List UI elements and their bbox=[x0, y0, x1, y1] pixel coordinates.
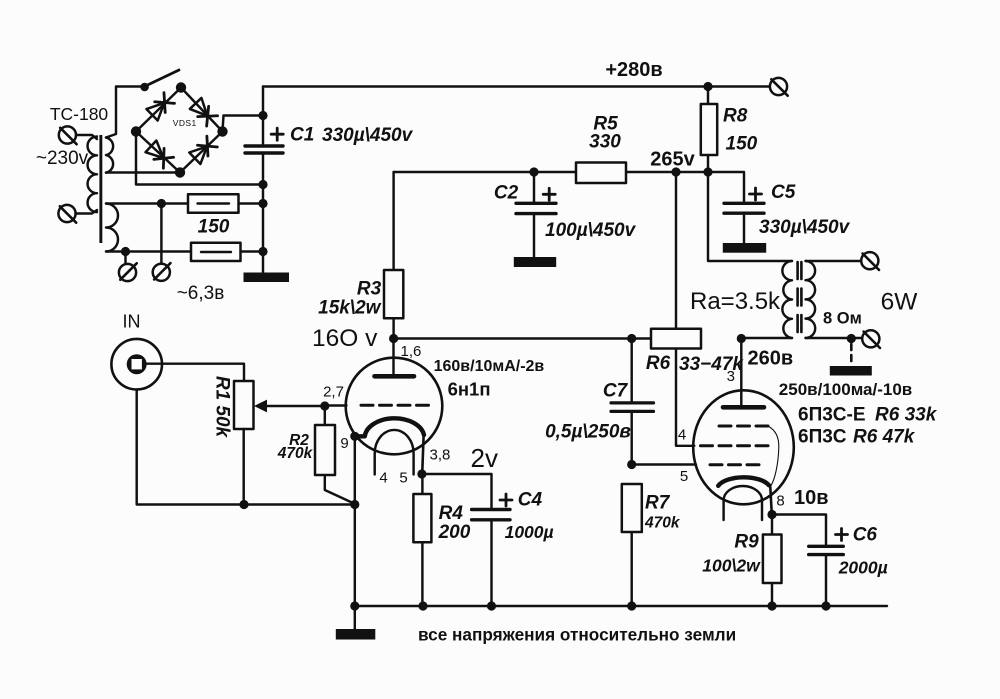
svg-text:2000µ: 2000µ bbox=[838, 558, 888, 578]
svg-text:TC-180: TC-180 bbox=[50, 104, 109, 124]
wire secondary top to terminal bbox=[806, 260, 862, 262]
tube V1 plate bbox=[392, 339, 394, 377]
svg-text:330µ\450v: 330µ\450v bbox=[322, 125, 414, 146]
transformer TC-180 HV secondary winding bbox=[106, 138, 113, 173]
terminal heater 2 bbox=[153, 263, 171, 281]
pin 9 dot and ground drop bbox=[354, 436, 356, 629]
diode VDS1d (bottom-right arm) bbox=[189, 136, 217, 164]
dashed ground drop from secondary bbox=[850, 344, 853, 364]
ground (speaker) bbox=[830, 366, 872, 376]
svg-text:R1 50k: R1 50k bbox=[212, 376, 233, 439]
transformer TC-180 primary winding bbox=[88, 137, 97, 213]
svg-text:150: 150 bbox=[198, 217, 230, 238]
resistor R5 bbox=[576, 163, 626, 184]
tube V2 cathode lead bbox=[770, 487, 772, 515]
wire OPT primary bottom to 260v node bbox=[741, 337, 792, 339]
wire HV secondary top to switch bbox=[106, 87, 145, 138]
diode VDS1c (left-bottom arm) bbox=[145, 141, 173, 169]
transformer TC-180 heater 6.3v winding bbox=[106, 204, 118, 252]
resistor R3 bbox=[392, 172, 394, 339]
terminal primary bottom bbox=[58, 205, 76, 223]
tube V2 cathode bbox=[718, 477, 769, 486]
ground (C5) bbox=[723, 243, 766, 253]
svg-text:100\2w: 100\2w bbox=[702, 556, 761, 576]
wire cathode V2 node bbox=[772, 515, 826, 545]
OPT core (dashed) bbox=[796, 262, 799, 336]
resistor R6 (feedback) bbox=[676, 172, 694, 446]
svg-text:6П3С: 6П3С bbox=[798, 427, 847, 448]
wire heater bottom terminal drop bbox=[124, 252, 126, 264]
tube V2 plate bbox=[723, 405, 764, 410]
ground (C1) bbox=[244, 273, 290, 283]
tube V1 6n1p envelope bbox=[346, 358, 443, 455]
svg-text:15k\2w: 15k\2w bbox=[318, 298, 382, 319]
input jack IN bbox=[111, 339, 162, 390]
svg-text:5: 5 bbox=[399, 470, 407, 487]
svg-text:6н1п: 6н1п bbox=[448, 379, 491, 400]
svg-text:8 Ом: 8 Ом bbox=[823, 310, 862, 328]
wire ground bus bbox=[355, 605, 887, 607]
wire heater top to C1 line bbox=[106, 202, 263, 204]
tube V2 heater bbox=[724, 486, 762, 520]
svg-text:8: 8 bbox=[776, 493, 784, 510]
wire bridge + output to C1 bbox=[223, 116, 264, 132]
transformer TC-180 core bbox=[99, 135, 102, 243]
OPT secondary winding bbox=[806, 261, 816, 338]
svg-text:3: 3 bbox=[727, 368, 735, 385]
wire jack hot to R1 top bbox=[147, 364, 244, 381]
diode VDS1a (left-top arm) bbox=[146, 92, 174, 120]
wire terminal to primary winding bottom bbox=[76, 210, 98, 214]
svg-text:260в: 260в bbox=[748, 348, 794, 370]
terminal +280v bbox=[770, 78, 788, 96]
svg-text:IN: IN bbox=[123, 312, 141, 332]
wire grid to node 2,7 bbox=[325, 404, 347, 406]
wire bridge AC bottom to HV secondary bbox=[106, 171, 180, 173]
wire heater top terminal drop bbox=[160, 204, 162, 264]
svg-text:R6: R6 bbox=[646, 353, 671, 374]
wire cathode node to C4 bbox=[422, 474, 492, 508]
tube V1 cathode lead bbox=[422, 436, 423, 474]
svg-text:R8: R8 bbox=[723, 106, 748, 127]
svg-text:R3: R3 bbox=[357, 279, 382, 300]
wire 265v to OPT primary top bbox=[708, 172, 792, 261]
svg-text:9: 9 bbox=[340, 435, 348, 452]
terminal speaker - bbox=[862, 330, 880, 348]
wire terminal to primary winding top bbox=[76, 135, 97, 139]
wire driver plate node bbox=[394, 337, 651, 339]
resistor R2 bbox=[315, 406, 353, 503]
wire jack ground down and right bbox=[137, 390, 355, 505]
svg-text:4: 4 bbox=[678, 427, 686, 444]
svg-text:3,8: 3,8 bbox=[430, 447, 451, 464]
resistor 150 (heater bottom humdinger) bbox=[191, 243, 241, 261]
svg-text:R7: R7 bbox=[645, 493, 671, 514]
svg-text:2,7: 2,7 bbox=[323, 384, 344, 401]
tube V2 control grid (dashed) bbox=[710, 463, 765, 466]
svg-text:16O v: 16O v bbox=[312, 325, 378, 352]
svg-text:5: 5 bbox=[680, 468, 688, 485]
diode VDS1b (top-right arm) bbox=[190, 98, 218, 126]
tube V2 beam plates (dashed) bbox=[719, 425, 769, 428]
potentiometer R1 50k bbox=[234, 381, 325, 505]
svg-text:470k: 470k bbox=[644, 515, 681, 532]
svg-text:C5: C5 bbox=[771, 182, 796, 203]
svg-text:C6: C6 bbox=[853, 525, 878, 546]
capacitor C2 bbox=[516, 172, 556, 257]
wire 265v rail bbox=[394, 171, 708, 173]
svg-text:6П3С-Е: 6П3С-Е bbox=[798, 405, 866, 426]
tube V1 cathode bbox=[355, 418, 424, 436]
svg-text:VDS1: VDS1 bbox=[173, 118, 197, 128]
svg-text:~230v: ~230v bbox=[36, 148, 89, 169]
svg-text:1000µ: 1000µ bbox=[505, 522, 554, 542]
svg-text:470k: 470k bbox=[277, 445, 314, 462]
svg-text:4: 4 bbox=[379, 470, 387, 487]
resistor R7 bbox=[622, 484, 642, 606]
svg-text:160в/10мА/-2в: 160в/10мА/-2в bbox=[434, 358, 545, 375]
svg-text:10в: 10в bbox=[794, 487, 829, 509]
capacitor C4 bbox=[472, 494, 512, 606]
capacitor C6 bbox=[809, 529, 848, 607]
svg-text:C1: C1 bbox=[290, 125, 314, 146]
wire secondary bottom to terminal bbox=[806, 337, 863, 339]
resistor R8 bbox=[707, 87, 709, 173]
tube V2 6p3s envelope bbox=[693, 390, 794, 504]
svg-text:150: 150 bbox=[726, 134, 758, 155]
svg-text:265v: 265v bbox=[650, 149, 695, 171]
svg-text:1,6: 1,6 bbox=[401, 343, 422, 360]
tube V2 beam plate connection bbox=[769, 427, 779, 487]
tube V2 screen grid (dashed) bbox=[701, 444, 770, 447]
ground (main bus left) bbox=[336, 629, 376, 640]
terminal primary top bbox=[59, 126, 77, 144]
svg-text:R4: R4 bbox=[439, 503, 464, 524]
svg-text:+280в: +280в bbox=[605, 59, 662, 81]
svg-text:~6,3в: ~6,3в bbox=[177, 283, 225, 304]
tube V1 grid (dashed) bbox=[361, 404, 434, 407]
resistor R4 bbox=[413, 474, 431, 606]
OPT primary winding Ra=3.5k bbox=[782, 261, 792, 338]
wire bridge - output down and right to C1 bottom bbox=[136, 132, 263, 185]
terminal speaker + bbox=[861, 252, 879, 270]
svg-text:100µ\450v: 100µ\450v bbox=[545, 220, 637, 241]
bridge rectifier VDS1 frame bbox=[131, 82, 228, 177]
tube V1 heater bbox=[375, 430, 414, 475]
svg-text:330µ\450v: 330µ\450v bbox=[759, 217, 851, 238]
svg-text:200: 200 bbox=[438, 522, 471, 543]
svg-text:R6 33k: R6 33k bbox=[875, 405, 938, 426]
svg-text:250в/100ма/-10в: 250в/100ма/-10в bbox=[779, 380, 912, 399]
svg-text:R6 47k: R6 47k bbox=[853, 427, 916, 448]
svg-text:330: 330 bbox=[589, 132, 621, 153]
wire +280v rail bbox=[263, 85, 770, 87]
wire g1 node to tube V2 bbox=[632, 463, 696, 465]
svg-text:2v: 2v bbox=[471, 443, 498, 473]
capacitor C1 bbox=[245, 87, 283, 273]
wire 260v node to tube V2 plate bbox=[740, 339, 742, 408]
switch SA1 bbox=[140, 70, 179, 91]
svg-text:6W: 6W bbox=[881, 289, 919, 316]
terminal heater 1 bbox=[119, 263, 137, 281]
ground (C2) bbox=[514, 257, 556, 267]
resistor R9 bbox=[763, 515, 782, 607]
svg-text:Ra=3.5k: Ra=3.5k bbox=[690, 288, 781, 315]
svg-text:0,5µ\250в: 0,5µ\250в bbox=[545, 422, 631, 443]
svg-text:R9: R9 bbox=[734, 532, 759, 553]
svg-text:C4: C4 bbox=[518, 490, 543, 511]
capacitor C5 bbox=[708, 172, 764, 243]
svg-text:все напряжения относительно зе: все напряжения относительно земли bbox=[418, 625, 736, 645]
capacitor C7 bbox=[611, 339, 654, 465]
wire heater bottom to C1 line bbox=[106, 250, 263, 252]
resistor 150 (heater top humdinger) bbox=[188, 194, 239, 213]
svg-text:C2: C2 bbox=[494, 183, 519, 204]
svg-text:C7: C7 bbox=[603, 381, 629, 402]
